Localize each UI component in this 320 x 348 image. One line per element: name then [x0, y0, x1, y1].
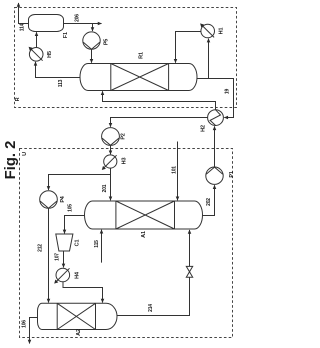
wire H5 to F1	[36, 32, 38, 47]
svg-text:H4: H4	[75, 271, 81, 279]
svg-text:A1: A1	[141, 231, 147, 238]
wire H1 return to R1	[176, 32, 201, 63]
dashed box U	[20, 149, 233, 338]
wire 206 from F1	[64, 23, 102, 25]
heat exchanger H4	[54, 268, 69, 283]
svg-text:113: 113	[58, 79, 64, 87]
wire 113 R1 to H5	[36, 62, 81, 78]
svg-text:P5: P5	[104, 39, 110, 45]
svg-text:R: R	[15, 97, 21, 101]
valve on line 214	[186, 266, 192, 277]
svg-text:101: 101	[172, 166, 178, 174]
wire 115 into A1 bottom	[101, 230, 103, 263]
svg-text:U: U	[22, 152, 28, 156]
svg-text:212: 212	[38, 244, 44, 252]
wire P2 to H3	[110, 145, 112, 154]
wire H2 top to R1 bottom	[103, 91, 216, 110]
pump P4	[40, 191, 58, 209]
wire branch to H1	[208, 39, 210, 79]
vessel F1	[29, 15, 64, 32]
svg-text:115: 115	[94, 240, 100, 248]
svg-text:F1: F1	[63, 32, 69, 38]
svg-text:106: 106	[22, 320, 28, 328]
wire 202 A1 to P1	[203, 185, 215, 215]
wire branch to P4	[49, 175, 111, 190]
wire 107 C1 to H4	[63, 251, 65, 267]
wire 214 A2 to A1 with valve	[117, 230, 190, 316]
wire H4 to A2	[63, 282, 103, 303]
column A1	[85, 201, 203, 229]
svg-text:C1: C1	[75, 240, 81, 247]
svg-text:H5: H5	[47, 51, 53, 58]
svg-text:214: 214	[148, 304, 154, 312]
svg-text:201: 201	[102, 184, 108, 192]
svg-text:P1: P1	[229, 171, 235, 177]
wire 212 P4 to A2	[48, 208, 50, 302]
pump P2	[102, 128, 120, 146]
svg-text:H1: H1	[219, 28, 225, 35]
wire R1 bottoms line 19 to H2	[197, 79, 234, 118]
wire 106 A2 out	[30, 318, 38, 344]
svg-text:P2: P2	[121, 133, 127, 139]
wire P1 to H2	[214, 126, 216, 167]
svg-text:H3: H3	[122, 158, 128, 165]
heat exchanger H1	[200, 23, 214, 37]
svg-text:107: 107	[55, 253, 61, 261]
pump P1	[206, 167, 223, 184]
wire 114 out of F1	[19, 3, 29, 24]
pump P5	[83, 32, 100, 49]
heat exchanger H5	[29, 47, 43, 61]
wire into P5	[92, 24, 94, 32]
wire 105 A1 to C1	[65, 216, 85, 234]
column A2	[38, 303, 118, 329]
svg-text:19: 19	[225, 89, 231, 95]
wire 201 H3 to A1	[110, 168, 112, 200]
wire H2 to P2	[111, 118, 208, 127]
heat exchanger H3	[102, 155, 117, 170]
svg-text:202: 202	[206, 198, 212, 206]
svg-text:H2: H2	[201, 125, 207, 132]
heat exchanger H2 with coil	[208, 110, 224, 126]
svg-text:A2: A2	[76, 329, 82, 336]
column R1	[80, 64, 197, 91]
svg-text:105: 105	[68, 204, 74, 212]
svg-text:206: 206	[75, 14, 81, 22]
wire P5 to R1	[91, 49, 93, 62]
svg-text:114: 114	[20, 23, 26, 31]
dashed box R	[15, 8, 237, 108]
wire 101 into A1 top	[177, 142, 179, 201]
compressor C1	[56, 234, 73, 251]
svg-text:Fig. 2: Fig. 2	[3, 141, 19, 180]
svg-text:R1: R1	[139, 52, 145, 59]
